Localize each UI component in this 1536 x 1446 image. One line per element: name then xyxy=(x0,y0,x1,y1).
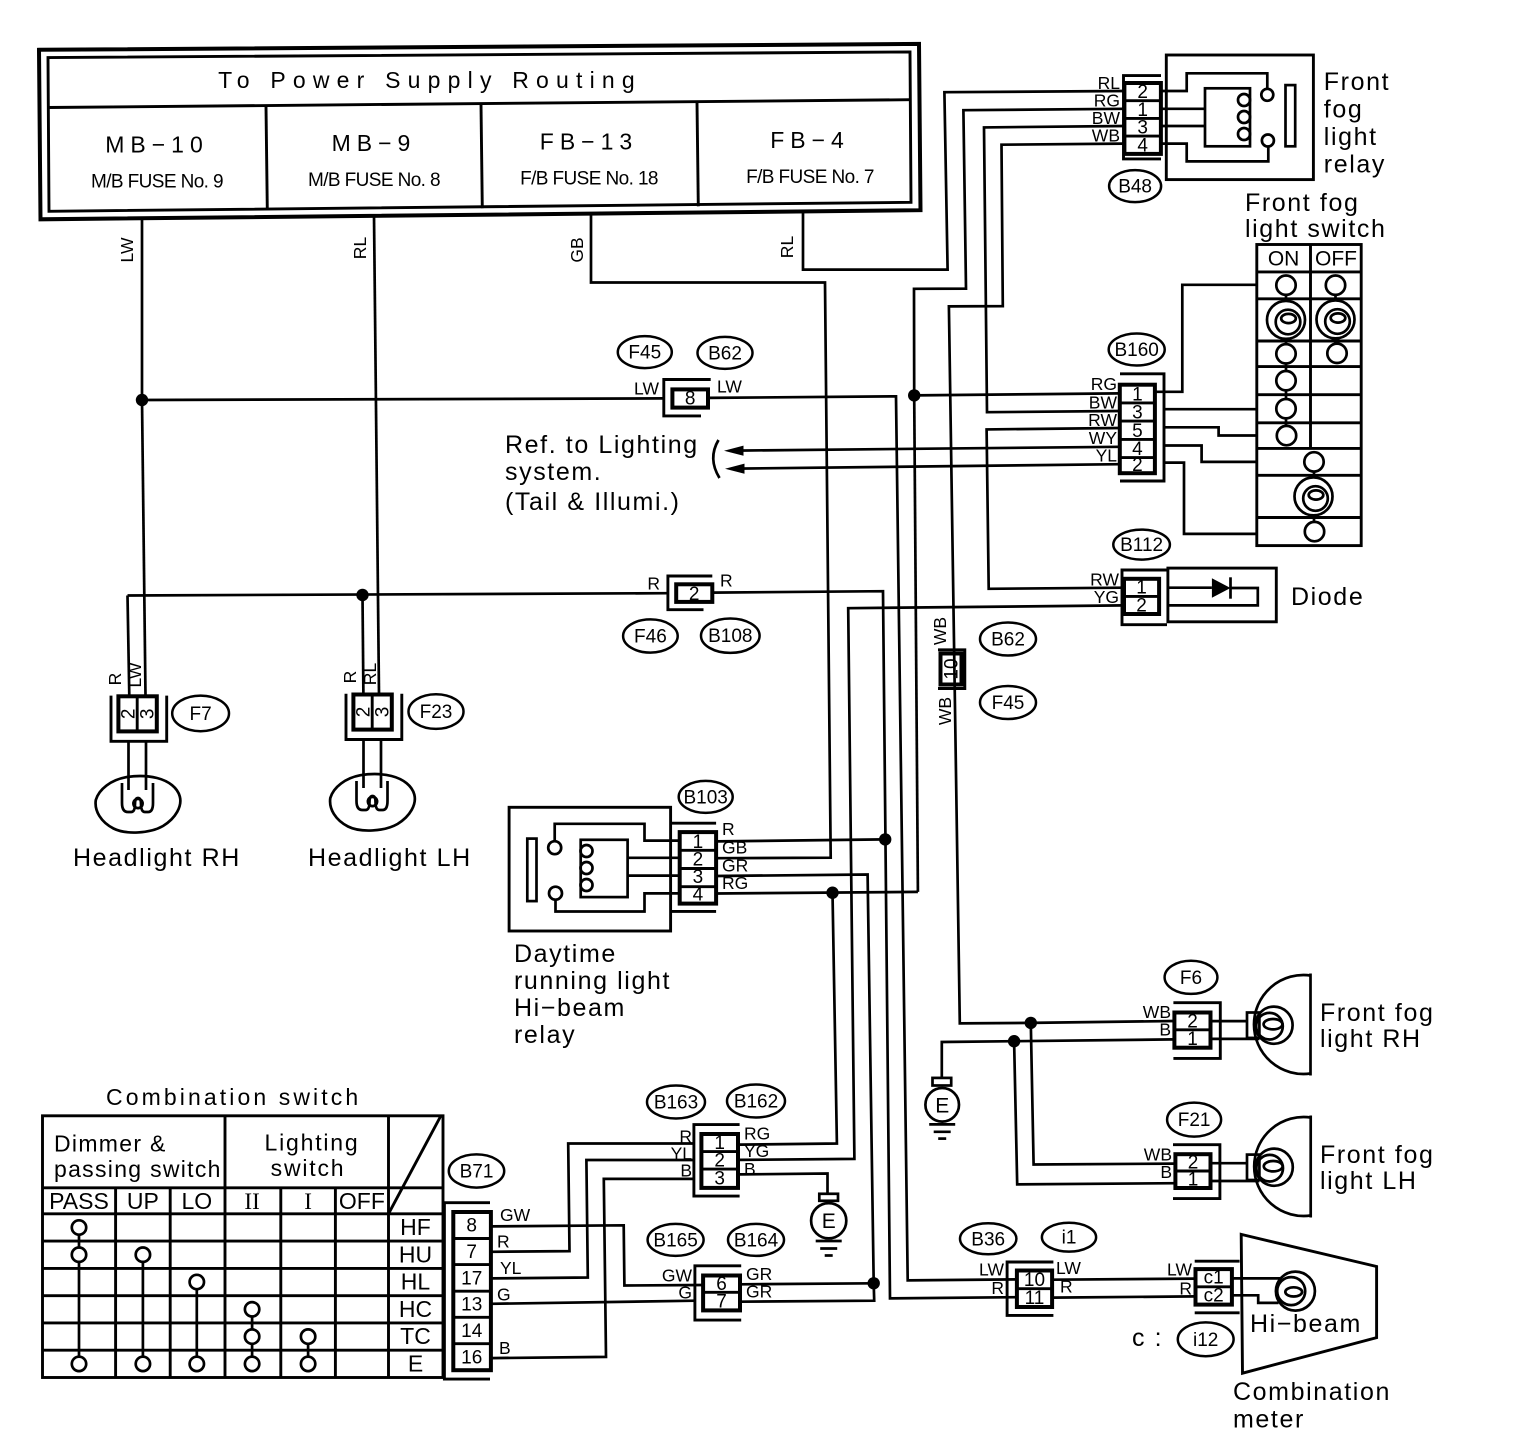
svg-text:B112: B112 xyxy=(1120,535,1163,556)
switch contacts: E row xyxy=(72,1357,86,1371)
lamp front fog light LH xyxy=(1211,1116,1311,1218)
text Combination meter xyxy=(1233,1378,1391,1434)
svg-text:MB−9: MB−9 xyxy=(332,130,417,156)
svg-text:7: 7 xyxy=(716,1291,727,1312)
wire B160 pin 2 to switch row 10 xyxy=(1164,463,1257,534)
switch chain PASS column xyxy=(78,1228,81,1364)
text Dimmer & passing switch xyxy=(54,1131,222,1183)
wire LW: B36 pin 10 to meter c1 xyxy=(1052,1279,1195,1280)
wire c2 to hi-beam bulb xyxy=(1232,1295,1279,1303)
ellipse F23 xyxy=(409,694,464,729)
svg-text:R: R xyxy=(497,1232,510,1252)
text Front fog light relay xyxy=(1324,68,1390,179)
svg-text:R: R xyxy=(722,819,735,839)
ellipse B165 xyxy=(648,1224,704,1256)
svg-text:F7: F7 xyxy=(190,704,212,725)
front fog light switch table frame xyxy=(1257,245,1361,546)
svg-text:light LH: light LH xyxy=(1320,1167,1418,1195)
svg-text:Ref. to Lighting: Ref. to Lighting xyxy=(505,431,699,459)
svg-text:F21: F21 xyxy=(1178,1110,1211,1131)
headlight RH bulb xyxy=(122,783,153,812)
node: R junction dot at B103 xyxy=(879,833,891,845)
svg-text:YL: YL xyxy=(500,1258,522,1278)
svg-text:B162: B162 xyxy=(734,1092,778,1113)
svg-text:relay: relay xyxy=(1324,151,1386,179)
wire GW: B71 pin 8 to B165 pin 6 xyxy=(491,1225,703,1285)
svg-text:fog: fog xyxy=(1324,96,1364,124)
svg-text:B: B xyxy=(499,1338,511,1358)
wire stubs F7 to headlight RH bulb xyxy=(127,741,130,790)
wire YG: B112 pin 2 to B162 pin 2 xyxy=(740,605,1124,1160)
svg-text:OFF: OFF xyxy=(1315,248,1357,271)
svg-text:F45: F45 xyxy=(992,693,1025,714)
switch contacts row 2 xyxy=(1276,276,1295,295)
wire B160 pin 3 to switch row 6 xyxy=(1164,408,1257,411)
svg-text:M/B FUSE No. 9: M/B FUSE No. 9 xyxy=(91,172,223,193)
svg-text:B103: B103 xyxy=(684,787,728,808)
wire GR: B103 pin 3 to B164 pins 6/7 xyxy=(716,875,874,1284)
svg-text:B164: B164 xyxy=(734,1230,779,1251)
svg-text:LW: LW xyxy=(634,379,659,399)
svg-text:R: R xyxy=(340,671,360,684)
relay B48 contact bar xyxy=(1286,85,1296,146)
relay B103 contacts xyxy=(548,841,561,854)
ellipse B160 xyxy=(1109,334,1165,366)
text Front fog light RH xyxy=(1320,999,1434,1053)
svg-text:FB−4: FB−4 xyxy=(770,127,850,153)
wire B: B162 pin 3 to ground xyxy=(740,1174,828,1194)
svg-text:B62: B62 xyxy=(991,630,1025,651)
wire B ground line to F6 pin 1 xyxy=(942,1039,1175,1078)
svg-text:YG: YG xyxy=(1094,587,1119,607)
fuse MB-9 (M/B FUSE No. 8) xyxy=(308,130,440,191)
svg-text:Diode: Diode xyxy=(1291,583,1364,611)
svg-text:Front fog: Front fog xyxy=(1320,999,1434,1027)
svg-text:2: 2 xyxy=(1136,595,1147,616)
svg-text:Headlight LH: Headlight LH xyxy=(308,844,472,872)
text Front fog light switch xyxy=(1245,189,1386,243)
ellipse F21 xyxy=(1167,1103,1221,1137)
svg-text:B: B xyxy=(680,1161,692,1181)
svg-text:R: R xyxy=(105,673,125,686)
connector B103 pin box xyxy=(672,823,716,911)
svg-text:II: II xyxy=(244,1189,259,1214)
svg-text:Lighting: Lighting xyxy=(265,1130,360,1156)
wire RG: B48 pin 1 staircase to junction xyxy=(914,109,1124,396)
svg-text:RL: RL xyxy=(350,237,370,260)
svg-text:R: R xyxy=(647,574,660,594)
svg-text:16: 16 xyxy=(461,1347,482,1368)
svg-text:B: B xyxy=(1159,1020,1171,1040)
switch contacts: HC row xyxy=(245,1302,259,1316)
svg-text:3: 3 xyxy=(137,709,158,720)
switch contacts row 4 xyxy=(1276,344,1295,363)
ground E (B162) xyxy=(811,1194,846,1256)
lamp hi-beam indicator xyxy=(1276,1272,1315,1311)
svg-text:E: E xyxy=(822,1210,836,1233)
svg-text:B36: B36 xyxy=(971,1229,1005,1250)
svg-text:LW: LW xyxy=(1167,1260,1192,1280)
relay B48 connector pin box xyxy=(1124,76,1162,159)
svg-text:7: 7 xyxy=(466,1242,477,1263)
svg-text:LW: LW xyxy=(1056,1258,1081,1278)
svg-text:Dimmer &: Dimmer & xyxy=(54,1131,167,1157)
svg-text:PASS: PASS xyxy=(49,1188,109,1214)
relay B103 contact bar xyxy=(527,839,536,902)
svg-text:Front fog: Front fog xyxy=(1245,189,1359,217)
ellipse B108 xyxy=(701,619,760,653)
svg-text:F/B FUSE No. 7: F/B FUSE No. 7 xyxy=(746,167,874,188)
svg-text:B: B xyxy=(1160,1162,1172,1182)
svg-text:HU: HU xyxy=(399,1241,432,1267)
combination switch table frame xyxy=(43,1116,444,1378)
svg-text:E: E xyxy=(408,1351,423,1377)
svg-text:8: 8 xyxy=(466,1216,477,1237)
wire WY arrow line to B160 pin 4 xyxy=(736,447,1120,451)
node: R junction dot at F23 branch xyxy=(356,589,368,601)
connector B62/F45 pin 10 (in-line WB) xyxy=(938,650,965,689)
svg-text:Daytime: Daytime xyxy=(514,940,617,968)
wire LW horizontal: junction to connector F45/B62 xyxy=(142,398,664,400)
wire YL: B71 pin 17 to B163 pin 2 xyxy=(491,1160,694,1278)
svg-text:Combination: Combination xyxy=(1233,1378,1391,1406)
wire RG: B103 pin 4 line xyxy=(716,892,918,894)
svg-text:FB−13: FB−13 xyxy=(540,129,638,155)
svg-text:M/B FUSE No. 8: M/B FUSE No. 8 xyxy=(308,170,440,191)
text Front fog light LH xyxy=(1320,1141,1434,1195)
ellipse B103 xyxy=(679,781,733,813)
switch contact row 8 (centre) xyxy=(1304,452,1323,471)
switch contacts: HL row xyxy=(190,1275,204,1289)
svg-text:LW: LW xyxy=(717,377,742,397)
svg-text:Hi−beam: Hi−beam xyxy=(514,994,626,1022)
headlight LH outline xyxy=(330,774,415,830)
wire R: B103 pin 1 to R-line junction xyxy=(716,839,885,841)
relay B103 internal wires xyxy=(555,824,680,841)
wire RL from FB-4 to B48 pin 2 xyxy=(803,91,1124,270)
wire R branch down to F7 pin 2 xyxy=(128,596,130,697)
wire WB: B48 pin 4 down to F6 pin 2 xyxy=(949,144,1175,1024)
switch illumination bulb OFF xyxy=(1317,300,1355,338)
svg-text:R: R xyxy=(720,571,733,591)
switch contact chain ON column xyxy=(1285,290,1288,430)
svg-text:Hi−beam: Hi−beam xyxy=(1250,1310,1362,1338)
svg-text:Front: Front xyxy=(1324,68,1390,96)
wire LW junction to F7 pin 3 xyxy=(142,400,146,696)
svg-text:4: 4 xyxy=(693,884,704,905)
brace for lighting system arrows xyxy=(713,440,719,478)
svg-text:(Tail & Illumi.): (Tail & Illumi.) xyxy=(505,488,681,516)
ellipse F6 xyxy=(1165,961,1218,994)
svg-text:I: I xyxy=(304,1189,312,1214)
wire R from connector 2 to corner, down to B36 pin 11 xyxy=(712,591,1017,1298)
fuse FB-13 (F/B FUSE No. 18) xyxy=(520,129,658,190)
wire LW from connector 8 to corner and down to B36 pin 10 xyxy=(708,396,1017,1280)
connector B165/B164 pin box xyxy=(695,1266,741,1320)
svg-text:B160: B160 xyxy=(1115,340,1159,361)
fuse FB-4 (F/B FUSE No. 7) xyxy=(746,127,874,188)
svg-text:RL: RL xyxy=(360,663,380,686)
wire R horizontal line xyxy=(128,593,668,595)
svg-text:To Power Supply Routing: To Power Supply Routing xyxy=(218,67,642,93)
svg-text:E: E xyxy=(935,1094,949,1117)
wire RL from MB-9 down to F23 pin 3 xyxy=(374,216,379,695)
ellipse B36 xyxy=(960,1223,1016,1254)
svg-text:RL: RL xyxy=(777,236,797,259)
wire GR junction to B164 pin 6 xyxy=(740,1283,874,1284)
headlight RH outline xyxy=(96,776,181,832)
row labels HF HU HL HC TC E xyxy=(399,1214,432,1377)
connector F6 pin box xyxy=(1173,1003,1220,1059)
relay B48: front fog light relay box xyxy=(1166,55,1313,180)
ellipse B48 xyxy=(1109,170,1161,202)
switch contacts: HU row xyxy=(72,1248,86,1262)
svg-text:Combination switch: Combination switch xyxy=(106,1084,361,1110)
node: RG junction dot xyxy=(908,389,920,401)
fuse MB-10 (M/B FUSE No. 9) xyxy=(91,132,223,193)
ellipse i1 xyxy=(1042,1223,1096,1252)
relay B103 coil xyxy=(581,840,628,897)
svg-text:B108: B108 xyxy=(708,626,752,647)
wire RG branch down to B162 pin 1 xyxy=(740,893,837,1145)
node: B junction dot at F6 xyxy=(1008,1035,1020,1047)
node: LW junction dot xyxy=(136,394,148,406)
svg-text:LW: LW xyxy=(117,237,137,262)
switch contacts rows 5-7 (ON) xyxy=(1276,371,1295,390)
svg-text:F/B FUSE No. 18: F/B FUSE No. 18 xyxy=(520,169,658,190)
svg-text:light switch: light switch xyxy=(1245,215,1386,243)
wire RG junction to B160 pin 1 xyxy=(914,393,1120,395)
arrowhead YL xyxy=(725,464,745,474)
svg-text:meter: meter xyxy=(1233,1406,1305,1434)
svg-text:11: 11 xyxy=(1025,1288,1045,1309)
svg-text:2: 2 xyxy=(353,707,374,718)
svg-text:R: R xyxy=(1179,1279,1192,1299)
svg-text:F46: F46 xyxy=(634,627,667,648)
diagonal of header corner cell xyxy=(389,1117,441,1214)
node: WB junction dot at F6 xyxy=(1025,1017,1037,1029)
ellipse F45 xyxy=(618,336,672,368)
wire GB from FB-13 to B103 pin 2 xyxy=(591,213,831,858)
headlight LH bulb xyxy=(357,781,388,810)
wire R: B36 pin 11 to meter c2 xyxy=(1052,1296,1195,1297)
svg-text:RG: RG xyxy=(1091,374,1117,394)
switch contact row 10 (centre) xyxy=(1305,522,1324,541)
svg-text:3: 3 xyxy=(714,1169,725,1190)
svg-text:YG: YG xyxy=(744,1141,769,1161)
text Ref. to Lighting system xyxy=(505,431,699,516)
combination meter outline xyxy=(1241,1234,1376,1373)
wire LW from MB-10 down xyxy=(141,218,144,400)
svg-text:TC: TC xyxy=(400,1323,431,1349)
svg-text:2: 2 xyxy=(1132,455,1143,476)
connector c1/c2 (combination meter) xyxy=(1195,1261,1240,1313)
switch contacts: HF row xyxy=(72,1220,86,1234)
wire G: B71 pin 13 to B165 pin 7 xyxy=(491,1301,696,1304)
relay B48 contacts xyxy=(1261,89,1273,101)
svg-text:LO: LO xyxy=(181,1188,212,1214)
fuse block: To Power Supply Routing (outer frame) xyxy=(39,44,921,219)
svg-text:c :: c : xyxy=(1132,1324,1163,1352)
svg-text:running light: running light xyxy=(514,967,671,995)
connector B112 pin box xyxy=(1122,570,1167,625)
wire WB branch down to F21 pin 2 xyxy=(1031,1023,1176,1165)
svg-text:10: 10 xyxy=(941,658,962,679)
connector F46/B108 pin 2 (in-line) xyxy=(668,576,712,610)
svg-text:G: G xyxy=(497,1285,511,1305)
wire RW: B112 pin 1 up to B160 pin 5 xyxy=(987,428,1124,589)
connector F23 (headlight LH) xyxy=(346,694,402,740)
svg-text:B165: B165 xyxy=(653,1230,697,1251)
wire B branch down to F21 pin 1 xyxy=(1014,1041,1176,1184)
lamp front fog light RH xyxy=(1211,974,1311,1076)
switch contact chain centre column xyxy=(1313,466,1316,526)
node: GR junction dot at B164 pin 6 xyxy=(868,1277,880,1289)
wire B160 pin 5 to switch row 7 xyxy=(1164,427,1257,435)
svg-text:B163: B163 xyxy=(654,1093,698,1114)
svg-text:B48: B48 xyxy=(1118,177,1152,198)
svg-text:switch: switch xyxy=(271,1155,346,1181)
connector F45/B62 pin 8 (in-line) xyxy=(664,380,711,416)
svg-text:F23: F23 xyxy=(420,702,453,723)
svg-text:R: R xyxy=(991,1278,1004,1298)
svg-text:YL: YL xyxy=(1096,446,1118,466)
svg-text:light: light xyxy=(1324,123,1378,151)
connector F21 pin box xyxy=(1173,1145,1220,1199)
wire B: B71 pin 16 to B163 pin 3 xyxy=(491,1179,694,1358)
svg-text:1: 1 xyxy=(1188,1170,1199,1191)
ellipse F45 (lower) xyxy=(980,686,1036,719)
svg-text:1: 1 xyxy=(1187,1029,1198,1050)
svg-text:UP: UP xyxy=(127,1188,159,1214)
svg-text:ON: ON xyxy=(1268,248,1300,271)
wire RG junction down to B103 pin 4 line xyxy=(914,395,918,892)
svg-text:Front fog: Front fog xyxy=(1320,1141,1434,1169)
svg-text:c2: c2 xyxy=(1204,1285,1224,1306)
ellipse i12 xyxy=(1178,1322,1234,1356)
ellipse B62 xyxy=(698,337,753,369)
svg-text:relay: relay xyxy=(514,1021,576,1049)
switch chain LO column xyxy=(195,1282,198,1364)
ellipse F7 xyxy=(172,696,229,732)
svg-text:17: 17 xyxy=(461,1268,482,1289)
switch contacts: TC row xyxy=(245,1329,259,1343)
relay B48 coil xyxy=(1205,88,1250,146)
connector B71 pin box xyxy=(444,1203,491,1379)
ellipse B71 xyxy=(449,1154,504,1187)
ellipse B163 xyxy=(647,1086,705,1119)
svg-text:light RH: light RH xyxy=(1320,1025,1422,1053)
arrowhead WY xyxy=(724,446,744,456)
svg-text:F45: F45 xyxy=(628,343,661,364)
wire B160 pin 1 to switch row 2 xyxy=(1155,285,1257,392)
svg-text:B: B xyxy=(744,1159,756,1179)
svg-text:HF: HF xyxy=(400,1214,431,1240)
column labels PASS UP LO II I OFF xyxy=(49,1188,385,1214)
svg-text:F6: F6 xyxy=(1180,968,1202,989)
switch contact chain OFF column xyxy=(1334,290,1337,348)
switch chain I column xyxy=(307,1337,310,1364)
wire YL arrow line to B160 pin 2 xyxy=(737,464,1120,468)
svg-text:B62: B62 xyxy=(708,343,742,364)
switch illumination bulb ON xyxy=(1267,301,1305,339)
connector B36/i1 pin box xyxy=(1007,1262,1053,1315)
wire B160 pin 4 to switch row 8 xyxy=(1164,446,1257,462)
svg-text:8: 8 xyxy=(685,389,696,410)
connector B163/B162 pin box xyxy=(694,1125,740,1197)
svg-text:LW: LW xyxy=(979,1260,1004,1280)
node: RG junction dot at B103 xyxy=(826,887,838,899)
svg-text:HC: HC xyxy=(399,1296,432,1322)
connector F7 (headlight RH) xyxy=(111,696,167,742)
svg-text:MB−10: MB−10 xyxy=(105,132,209,158)
switch chain II column xyxy=(251,1309,254,1364)
text Lighting switch xyxy=(265,1130,360,1182)
svg-text:B71: B71 xyxy=(460,1162,494,1183)
svg-text:2: 2 xyxy=(118,709,139,720)
svg-text:i1: i1 xyxy=(1062,1228,1077,1249)
svg-text:i12: i12 xyxy=(1193,1330,1218,1351)
svg-text:passing switch: passing switch xyxy=(54,1156,222,1182)
svg-text:GB: GB xyxy=(567,237,587,262)
relay B48 internal wires xyxy=(1161,73,1267,91)
svg-text:WB: WB xyxy=(930,617,950,645)
relay B103: daytime running light hi-beam relay box xyxy=(509,807,670,931)
svg-text:GR: GR xyxy=(746,1282,772,1302)
ellipse B164 xyxy=(728,1224,784,1256)
ground E (fog lights) xyxy=(925,1078,959,1139)
svg-text:Headlight RH: Headlight RH xyxy=(73,844,241,872)
svg-text:13: 13 xyxy=(461,1295,482,1316)
switch chain UP column xyxy=(142,1255,145,1364)
wire BW: B48 pin 3 to B160 pin 3 xyxy=(984,126,1124,412)
wire R: B71 pin 7 to B163 pin 1 xyxy=(491,1144,694,1252)
svg-text:LW: LW xyxy=(125,662,145,687)
text Daytime running light Hi-beam relay xyxy=(514,940,671,1049)
svg-text:HL: HL xyxy=(401,1269,431,1295)
svg-text:14: 14 xyxy=(461,1321,483,1342)
svg-text:system.: system. xyxy=(505,458,602,486)
ellipse F46 xyxy=(623,619,678,652)
ellipse B162 xyxy=(727,1085,785,1118)
ellipse B62 (lower) xyxy=(980,623,1036,656)
wire GR junction loop to B164 pin 7 xyxy=(740,1283,874,1301)
svg-text:2: 2 xyxy=(689,584,700,605)
wire R branch down to F23 pin 2 xyxy=(361,595,365,694)
wire c1 to hi-beam bulb xyxy=(1232,1277,1280,1280)
switch illumination bulb centre xyxy=(1295,477,1333,515)
svg-text:4: 4 xyxy=(1137,136,1148,157)
svg-text:3: 3 xyxy=(372,707,393,718)
diode D (B112) xyxy=(1168,568,1276,622)
svg-text:GW: GW xyxy=(500,1205,531,1225)
ellipse B112 xyxy=(1113,530,1170,560)
svg-text:WB: WB xyxy=(935,697,955,725)
svg-text:OFF: OFF xyxy=(339,1188,385,1214)
wire stubs F23 to headlight LH bulb xyxy=(362,740,365,789)
connector B160 pin box xyxy=(1120,374,1164,481)
